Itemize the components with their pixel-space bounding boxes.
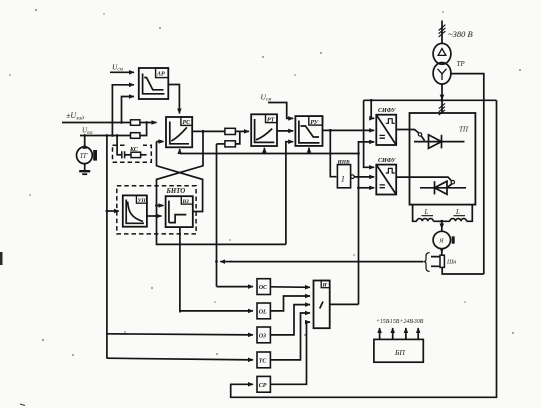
svg-text:±Uзад: ±Uзад [66, 111, 84, 122]
svg-text:КС: КС [129, 147, 139, 153]
svg-text:L: L [424, 208, 429, 216]
svg-text:ТП: ТП [459, 126, 469, 134]
svg-text:L: L [455, 208, 460, 216]
svg-text:ОС: ОС [259, 285, 268, 291]
svg-text:-30В: -30В [412, 319, 424, 325]
svg-text:~380 В: ~380 В [448, 29, 473, 39]
svg-text:ТГ: ТГ [80, 153, 89, 160]
svg-text:ОЗ: ОЗ [259, 334, 266, 340]
svg-text:Uсм: Uсм [112, 63, 124, 73]
svg-text:АР: АР [156, 72, 165, 78]
svg-text:СИФУ: СИФУ [378, 108, 396, 114]
svg-text:И: И [322, 283, 328, 289]
svg-text:ВЗ: ВЗ [182, 199, 189, 205]
svg-text:ОL: ОL [259, 310, 267, 316]
svg-text:РС: РС [183, 120, 192, 126]
svg-text:Шн: Шн [446, 259, 456, 265]
svg-text:ИНВ: ИНВ [337, 159, 351, 165]
svg-text:Uсм: Uсм [261, 93, 273, 103]
svg-text:РТ: РТ [267, 117, 275, 123]
svg-text:ТС: ТС [259, 359, 268, 365]
svg-text:ТР: ТР [457, 60, 466, 68]
svg-text:-15В: -15В [388, 319, 400, 325]
svg-text:1: 1 [341, 174, 345, 184]
svg-text:Uтг: Uтг [82, 127, 93, 137]
svg-text:СИФУ: СИФУ [378, 158, 396, 164]
svg-text:БП: БП [394, 348, 405, 357]
svg-text:УП: УП [138, 198, 147, 204]
svg-text:Я: Я [438, 238, 444, 245]
svg-text:СР: СР [259, 383, 267, 389]
svg-text:БНТО: БНТО [166, 188, 186, 195]
